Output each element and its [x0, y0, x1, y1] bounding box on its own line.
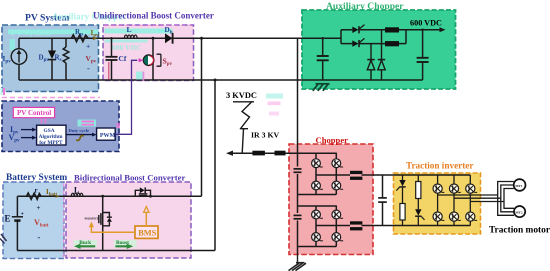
- title Bidirectional Boost Converter: [74, 172, 185, 182]
- arrow Vpv to GSA box: [21, 136, 37, 140]
- svg-text:-: -: [87, 63, 90, 73]
- wire vertical bidirectional output riser: [200, 37, 203, 196]
- svg-text:E: E: [5, 214, 11, 224]
- ghost cyan bands inside unidirectional block: [105, 29, 173, 43]
- ground chopper: [289, 255, 307, 271]
- ghost magenta dashes on unidirectional top border: [104, 24, 193, 26]
- label Traction motor: [489, 226, 550, 236]
- svg-text:Cf: Cf: [119, 54, 127, 63]
- wire inverter leg 1: [437, 175, 439, 226]
- resistor Rp horizontal: [72, 35, 89, 42]
- battery E cell: [12, 196, 23, 250]
- ghost pink ticks above GSA box: [41, 119, 47, 124]
- wire catenary line with left arrow: [226, 151, 337, 156]
- Bidirectional Boost Converter block container: [66, 182, 191, 258]
- svg-text:3 KVDC: 3 KVDC: [226, 91, 257, 100]
- label Duty cycle: [69, 128, 90, 133]
- ghost cyan text 600 VDC: [112, 43, 142, 52]
- MOSFET M1 vertical: [99, 195, 112, 251]
- ghost pink blob right of PWM: [117, 123, 121, 128]
- ghost cyan text PV System: [11, 28, 52, 38]
- IGBT chopper Q1: [312, 159, 323, 168]
- IGBT chopper Q5: [312, 210, 323, 219]
- label L bidirectional: [74, 186, 79, 195]
- svg-text:Boost: Boost: [116, 240, 129, 246]
- label r: [35, 186, 38, 194]
- title Battery System: [6, 173, 67, 183]
- arrow Ipv to GSA box: [21, 128, 37, 132]
- svg-text:+: +: [86, 42, 90, 51]
- IGBT inverter bottom leg 2: [449, 212, 460, 221]
- svg-text:r: r: [35, 186, 38, 194]
- svg-text:Duty cycle: Duty cycle: [69, 128, 90, 133]
- svg-text:L: L: [127, 25, 132, 34]
- wire bottom branch join riser: [399, 30, 406, 44]
- wire phase A output: [438, 194, 498, 196]
- svg-text:MOSFET: MOSFET: [85, 217, 100, 221]
- inductor chopper output 1: [350, 171, 362, 180]
- ground aux chopper: [313, 84, 330, 91]
- Unidirectional Boost Converter block container: [103, 25, 194, 81]
- svg-text:Buck: Buck: [79, 240, 91, 246]
- motor MT2: [514, 206, 525, 217]
- IGBT chopper Q3: [312, 181, 323, 190]
- label Vbatt: [34, 218, 49, 229]
- svg-text:Battery System: Battery System: [6, 173, 67, 183]
- title Unidirectional Boost Converter: [93, 11, 214, 21]
- thyristor inverter brake arm 1: [396, 175, 405, 204]
- control wire PWM to Spv gate: [115, 58, 143, 134]
- resistor Rs vertical: [63, 38, 69, 80]
- svg-text:L: L: [74, 186, 79, 195]
- ghost magenta tick left edge: [1, 88, 6, 95]
- arrow GSA to PWM duty cycle: [66, 133, 97, 137]
- resistor inverter arm 2: [416, 175, 421, 199]
- thyristor bottom branch: [352, 38, 385, 47]
- left edge artifact mark: [0, 234, 7, 244]
- label Ipv input: [10, 125, 19, 136]
- IGBT inverter top leg 1: [433, 184, 444, 193]
- label 600 VDC aux: [410, 19, 442, 28]
- zener diode D2: [378, 30, 385, 80]
- Auxiliary Chopper block container: [302, 10, 456, 89]
- IGBT chopper Q7: [312, 233, 323, 242]
- label IR 3 KV: [251, 131, 280, 140]
- label battery plus: [21, 211, 25, 217]
- label L boost: [127, 25, 132, 34]
- Battery System block container: [3, 182, 64, 259]
- wire chopper cell2 mid and bottom: [298, 226, 351, 247]
- title PV System: [25, 12, 69, 23]
- svg-text:+: +: [21, 211, 25, 217]
- label E: [5, 214, 11, 224]
- thyristor top branch: [352, 25, 385, 34]
- svg-text:Bidirectional Boost Converter: Bidirectional Boost Converter: [74, 172, 185, 182]
- arrow Ipv current direction: [93, 37, 98, 40]
- diode Dpv: [48, 38, 56, 80]
- wire inverter leg 3: [469, 175, 471, 226]
- MOSFET M2 horizontal: [135, 187, 152, 197]
- IGBT chopper Q6: [332, 210, 343, 219]
- IGBT inverter top leg 2: [449, 184, 460, 193]
- diode Db: [165, 33, 173, 44]
- wire chopper cell1 columns: [316, 153, 336, 194]
- svg-text:GSA: GSA: [44, 128, 55, 134]
- ghost pink dashed line battery right edge: [63, 183, 65, 258]
- IGBT inverter top leg 3: [466, 184, 477, 193]
- wire BMS to M1 gate: [89, 222, 135, 233]
- wire top branch to 600VDC arrow: [399, 27, 446, 32]
- IGBT chopper Q2: [332, 159, 343, 168]
- thyristor inverter brake arm 2: [415, 199, 424, 226]
- label plus Vpv: [86, 42, 90, 51]
- label Spv: [163, 56, 173, 67]
- PV Control title box: [13, 107, 54, 117]
- ghost red tick near Cf: [108, 62, 110, 80]
- label Ipv source: [3, 55, 12, 65]
- label Dpv: [39, 54, 50, 64]
- IGBT inverter bottom leg 1: [433, 212, 444, 221]
- IGBT Spv: [143, 37, 160, 80]
- label 3 KVDC: [226, 91, 257, 100]
- label Ibatt: [46, 188, 57, 197]
- svg-text:Auxiliary Chopper: Auxiliary Chopper: [326, 1, 404, 12]
- svg-text:600 VDC: 600 VDC: [112, 43, 142, 52]
- title Auxiliary Chopper: [326, 1, 404, 12]
- wire inverter leg 2: [453, 175, 455, 226]
- wire phase B output: [454, 197, 501, 199]
- svg-text:IR 3 KV: IR 3 KV: [251, 131, 280, 140]
- aux chopper capacitor C2: [417, 29, 429, 81]
- resistor block bottom branch: [385, 41, 399, 46]
- motor MT1: [514, 179, 526, 191]
- svg-text:PWM: PWM: [100, 133, 116, 139]
- wire motor riser outer: [498, 182, 514, 216]
- svg-text:Unidirectional Boost Converter: Unidirectional Boost Converter: [93, 11, 214, 21]
- GSA Algorithm for MPPT box: [37, 125, 66, 146]
- label plus Vbatt: [37, 204, 41, 212]
- wire motor riser inner: [504, 189, 514, 209]
- capacitor DC link: [378, 175, 387, 226]
- svg-text:MT1: MT1: [515, 184, 522, 188]
- svg-text:600 VDC: 600 VDC: [410, 19, 442, 28]
- wire battery bottom rail: [17, 250, 215, 252]
- arrow Boost: [114, 240, 137, 249]
- label Cf: [119, 54, 127, 63]
- svg-text:+: +: [37, 204, 41, 212]
- label Ipv output current: [91, 29, 100, 39]
- svg-text:Traction motor: Traction motor: [489, 226, 550, 236]
- wire phase C output: [470, 201, 504, 203]
- svg-text:Traction inverter: Traction inverter: [406, 161, 473, 171]
- ghost cyan title Auxiliary Chopper: [52, 12, 126, 22]
- aux chopper capacitor C1: [317, 37, 329, 80]
- inductor line reactor 1: [252, 151, 265, 156]
- wire BMS to M2 gate: [144, 207, 149, 226]
- IGBT chopper Q4: [332, 181, 343, 190]
- inductor L boost: [124, 35, 137, 38]
- svg-text:BMS: BMS: [138, 229, 156, 238]
- wire chopper cell2 top: [298, 205, 337, 207]
- chopper series capacitor bottom: [294, 213, 302, 221]
- Traction inverter block container: [394, 173, 481, 234]
- ghost cyan patch with pink bars above duty cycle: [78, 120, 97, 127]
- label Rp: [75, 28, 83, 38]
- label Vpv input: [9, 133, 21, 144]
- ghost magenta dashed line below PV block: [2, 97, 100, 99]
- wire chopper cell2 columns: [316, 206, 336, 247]
- title Chopper: [316, 135, 349, 145]
- ghost cyan and magenta patch below IGBT: [136, 72, 144, 82]
- wire vertical battery return riser: [214, 79, 217, 251]
- label Db: [165, 26, 173, 36]
- label MOSFET: [85, 217, 100, 221]
- PWM box: [97, 128, 116, 140]
- ghost cyan band PV block: [8, 30, 98, 51]
- svg-text:-: -: [38, 232, 41, 242]
- resistor r battery: [27, 193, 42, 199]
- wire chopper output 2 to inverter: [362, 225, 471, 227]
- chopper series capacitor top: [294, 167, 302, 175]
- wire bottom DC bus: [19, 79, 423, 81]
- IGBT inverter bottom leg 3: [466, 212, 477, 221]
- wire chopper left bus riser: [297, 38, 299, 254]
- pantograph 3 KVDC symbol: [233, 102, 254, 153]
- arrow Buck: [74, 240, 98, 249]
- wire battery top rail: [17, 195, 201, 197]
- inductor line reactor 2: [275, 151, 286, 156]
- zener diode D1: [367, 44, 374, 80]
- wire chopper cell1 mid and bottom: [298, 175, 351, 195]
- Chopper block container: [289, 144, 373, 255]
- inductor chopper output 2: [350, 221, 362, 230]
- label minus Vbatt: [38, 232, 41, 242]
- aux chopper branch split: [341, 30, 352, 44]
- PV System block container: [2, 25, 99, 92]
- PV Control block container: [2, 101, 119, 152]
- label Rs: [55, 54, 62, 64]
- resistor inverter arm 1: [400, 204, 405, 226]
- svg-text:PV Control: PV Control: [17, 109, 51, 117]
- svg-text:for MPPT: for MPPT: [39, 140, 63, 146]
- title Traction inverter: [406, 161, 473, 171]
- current source Ipv: [11, 38, 27, 80]
- label Vpv: [86, 54, 97, 65]
- svg-text:MT2: MT2: [515, 210, 522, 214]
- resistor block top branch: [385, 27, 399, 32]
- IGBT chopper Q8: [332, 233, 343, 242]
- svg-text:Chopper: Chopper: [316, 135, 349, 145]
- label minus Vpv: [87, 63, 90, 73]
- wire top DC bus: [19, 37, 341, 39]
- capacitor Cf: [106, 37, 118, 80]
- wire motor riser middle: [501, 185, 514, 212]
- BMS box: [135, 226, 158, 238]
- arrow Ibatt current direction: [56, 195, 60, 198]
- inductor L bidirectional: [71, 193, 83, 196]
- ghost cyan magenta flecks near 3KVDC: [266, 94, 283, 116]
- svg-text:PV System: PV System: [11, 28, 52, 38]
- signal ramp glyph: [76, 136, 84, 141]
- wire chopper output 1 to inverter: [362, 174, 471, 176]
